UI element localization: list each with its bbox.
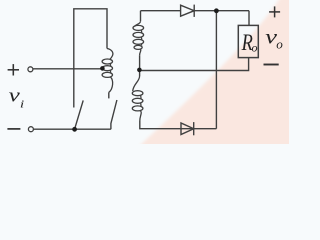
transformer T1 secondary bottom loops <box>132 91 143 96</box>
transformer T1 secondary center lead <box>139 55 141 76</box>
transformer T1 primary entry curve <box>107 49 113 60</box>
terminal circle plus <box>28 67 33 72</box>
plus sign input <box>8 69 19 71</box>
svg-text:v: v <box>9 85 20 106</box>
junction dot secondary center tap <box>137 68 142 73</box>
diode D2 <box>181 123 194 135</box>
transformer T1 secondary top loops <box>133 25 144 30</box>
pink corner watermark <box>134 0 296 152</box>
svg-text:i: i <box>20 98 25 110</box>
minus sign input <box>7 128 20 130</box>
switch S2 fixed contact <box>108 92 110 98</box>
svg-text:o: o <box>252 41 258 55</box>
wire left branch and primary top <box>74 9 107 108</box>
wire secondary top to diode D1 <box>141 10 181 12</box>
junction dot primary center tap <box>100 66 105 71</box>
svg-text:o: o <box>276 38 283 52</box>
wire input minus lead <box>33 128 74 130</box>
transformer T1 secondary top stem <box>140 11 142 22</box>
wire secondary bottom to diode D2 <box>140 121 217 129</box>
switch S1 blade <box>75 100 84 129</box>
diode D1 <box>181 5 195 16</box>
plus sign output <box>269 11 280 13</box>
junction dot switch return <box>72 127 77 132</box>
transformer T1 secondary bottom entry curve <box>133 76 140 91</box>
minus sign output <box>264 64 279 66</box>
switch S2 blade <box>111 100 117 129</box>
wire diode D1 to node <box>194 10 249 12</box>
terminal circle minus <box>28 127 33 132</box>
junction dot cathode node <box>214 8 219 13</box>
transformer T1 secondary top entry curve <box>135 21 141 26</box>
wire bottom return to switch S2 <box>75 128 111 130</box>
wire cathode bus vertical <box>215 11 217 129</box>
wire resistor bottom to center tap <box>140 58 249 71</box>
transformer T1 secondary bottom exit curve <box>140 110 141 121</box>
resistor RO box <box>238 25 258 57</box>
wire node to resistor top <box>248 11 250 26</box>
wire input plus lead <box>33 68 101 70</box>
transformer T1 secondary top exit curve <box>140 49 141 55</box>
transformer T1 primary exit curve <box>109 77 113 93</box>
transformer T1 primary loops <box>102 59 112 64</box>
